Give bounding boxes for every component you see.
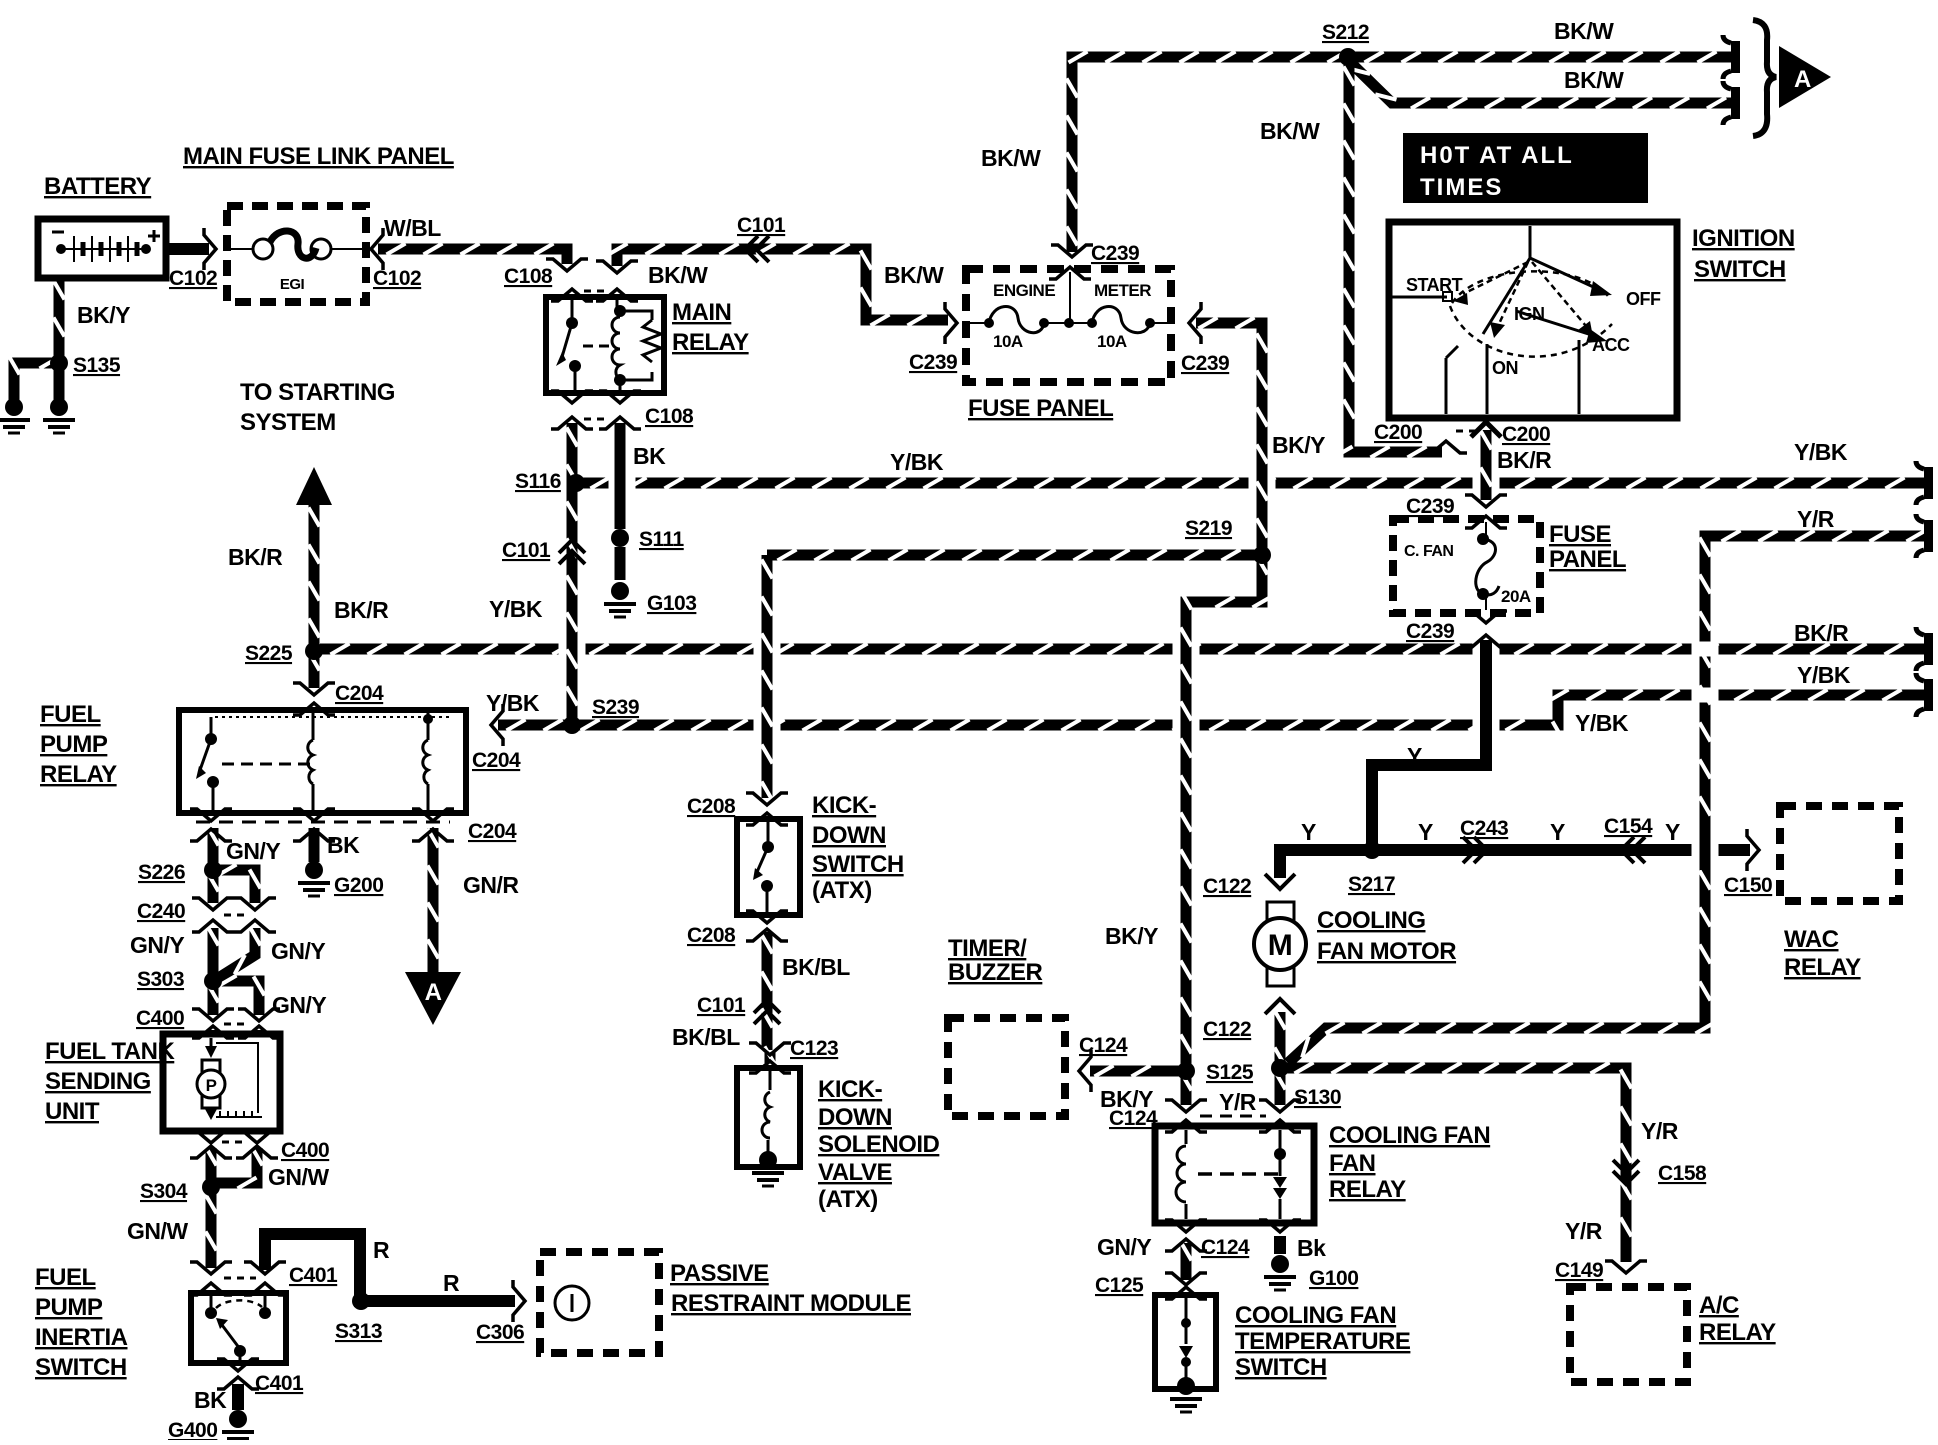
- svg-text:SYSTEM: SYSTEM: [240, 409, 336, 436]
- wire end Y/BK row A: [1916, 461, 1933, 505]
- svg-text:Y/R: Y/R: [1565, 1218, 1603, 1244]
- wire pin stub C400 left: [208, 1030, 219, 1034]
- svg-text:S303: S303: [137, 968, 184, 991]
- label RELAY at 1699,1340: [1699, 1319, 1776, 1346]
- svg-text:S226: S226: [138, 861, 185, 884]
- label C239 at 1181,370: [1181, 352, 1229, 375]
- connector C108 bottom right: [599, 391, 641, 429]
- svg-text:SWITCH: SWITCH: [1694, 256, 1786, 283]
- label PANEL at 1549,567: [1549, 546, 1626, 573]
- wire GN/Y wire relay to C125: [1181, 1242, 1192, 1281]
- svg-text:Y/BK: Y/BK: [890, 449, 944, 475]
- svg-text:WAC: WAC: [1784, 926, 1839, 953]
- svg-text:BK/W: BK/W: [1564, 67, 1624, 93]
- svg-text:IGNITION: IGNITION: [1692, 225, 1795, 252]
- label KICK- at 812,813: [812, 792, 877, 819]
- svg-text:C208: C208: [687, 795, 736, 818]
- connector C401 bottom: [217, 1359, 259, 1389]
- wire BK/Y wire S135 to grounds: [9, 356, 60, 401]
- svg-text:G400: G400: [168, 1419, 217, 1440]
- connector C239 cfan top: [1465, 495, 1507, 528]
- svg-text:Y: Y: [1418, 819, 1433, 845]
- svg-text:GN/Y: GN/Y: [271, 938, 325, 964]
- node S116: [567, 474, 585, 492]
- svg-text:C200: C200: [1374, 421, 1422, 444]
- label G100 at 1309,1285: [1309, 1267, 1358, 1290]
- connector C122 motor top arrow: [1265, 874, 1295, 889]
- svg-text:A/C: A/C: [1699, 1292, 1739, 1319]
- svg-text:FUSE PANEL: FUSE PANEL: [968, 395, 1113, 422]
- label C204 at 472,767: [472, 749, 521, 772]
- label S225 at 245,660: [245, 642, 293, 665]
- wire Y wire fuse to S217: [1372, 640, 1486, 850]
- label C102 at 169,285: [169, 267, 217, 290]
- wire GN/Y branch S226 right: [217, 865, 261, 904]
- node S303: [204, 972, 222, 990]
- label SYSTEM at 240,430: [240, 409, 336, 436]
- label Y/R at 1219,1110: [1219, 1089, 1257, 1115]
- wire GN/R wire C204 to connector A arrow: [428, 828, 439, 975]
- label UNIT at 45,1119: [45, 1098, 100, 1125]
- label FUEL at 40,722: [40, 701, 101, 728]
- wire Y/R wire S130 to C158/C149: [1286, 1063, 1632, 1263]
- node S135: [50, 354, 68, 372]
- connector C204 dashed line: [196, 821, 450, 824]
- svg-text:BK/W: BK/W: [1260, 118, 1320, 144]
- label C200 at 1502,441: [1502, 423, 1550, 446]
- label C400 at 136,1025: [136, 1007, 184, 1030]
- label C102 at 373,285: [373, 267, 421, 290]
- label Y/R at 1641,1139: [1641, 1118, 1679, 1144]
- svg-text:H0T AT ALL: H0T AT ALL: [1420, 142, 1574, 169]
- label G200 at 334,892: [334, 874, 383, 897]
- svg-text:FAN: FAN: [1329, 1150, 1376, 1177]
- label Bk at 1297,1256: [1297, 1235, 1326, 1261]
- svg-text:FUEL TANK: FUEL TANK: [45, 1038, 175, 1065]
- label FUEL TANK at 45,1059: [45, 1038, 175, 1065]
- wire BK/BL stub C123: [765, 1047, 776, 1066]
- connector C154 inline: [1621, 837, 1645, 863]
- label fuse C. FAN: [1404, 543, 1453, 560]
- label Y at 1665,840: [1665, 819, 1680, 845]
- connector C150: [1747, 829, 1759, 871]
- svg-text:S304: S304: [140, 1180, 188, 1203]
- label BK at 194,1408: [194, 1387, 227, 1413]
- wire end BK/W 1: [1723, 35, 1740, 79]
- label BK at 633,464: [633, 443, 666, 469]
- svg-text:RELAY: RELAY: [672, 329, 749, 356]
- relay fuel pump relay: [179, 710, 466, 813]
- svg-text:METER: METER: [1094, 281, 1151, 300]
- svg-text:Y/BK: Y/BK: [489, 596, 543, 622]
- svg-text:RELAY: RELAY: [40, 761, 117, 788]
- svg-text:C108: C108: [645, 405, 694, 428]
- svg-text:G200: G200: [334, 874, 383, 897]
- label GN/Y at 1097,1255: [1097, 1234, 1151, 1260]
- svg-text:C101: C101: [697, 994, 746, 1017]
- connector C108 bottom left: [551, 391, 593, 429]
- ground left of S135: [0, 398, 30, 433]
- svg-text:Y/R: Y/R: [1219, 1089, 1257, 1115]
- label FUEL at 35,1285: [35, 1264, 96, 1291]
- svg-text:BK/Y: BK/Y: [1272, 432, 1325, 458]
- label C200 at 1374,439: [1374, 421, 1422, 444]
- svg-text:S212: S212: [1322, 21, 1369, 44]
- connector C102 battery side: [204, 228, 216, 270]
- svg-text:S116: S116: [515, 470, 561, 493]
- svg-text:Bk: Bk: [1297, 1235, 1326, 1261]
- fuel tank sending unit: [163, 1034, 280, 1131]
- svg-text:GN/R: GN/R: [463, 872, 519, 898]
- wire Y/BK row S219 left segment: [767, 550, 1258, 561]
- svg-text:C306: C306: [476, 1321, 524, 1344]
- wire BK/W vertical to top row: [1067, 52, 1738, 253]
- svg-text:A: A: [1794, 66, 1811, 93]
- svg-text:C239: C239: [1406, 620, 1454, 643]
- svg-text:BK/W: BK/W: [648, 262, 708, 288]
- wire BK/R wire arrow to S225: [309, 503, 320, 649]
- switch cooling fan temperature switch: [1155, 1295, 1216, 1389]
- svg-text:C243: C243: [1460, 817, 1508, 840]
- wire GN/Y wire S226 to C240: [208, 873, 219, 904]
- label BATTERY at 44,194: [44, 173, 152, 200]
- ground G200: [298, 861, 330, 896]
- svg-text:PUMP: PUMP: [40, 731, 108, 758]
- svg-text:G103: G103: [647, 592, 696, 615]
- label TIMER/ at 948,956: [948, 935, 1027, 962]
- connector C400 bottom: [190, 1131, 278, 1158]
- svg-text:C239: C239: [1181, 352, 1229, 375]
- label C122 at 1203,893: [1203, 875, 1251, 898]
- connector C108 top left: [546, 259, 593, 301]
- label HOT AT ALL TIMES: [1403, 133, 1648, 203]
- svg-text:IGN: IGN: [1514, 304, 1545, 324]
- label C150 at 1724,892: [1724, 874, 1772, 897]
- connector C102 EGI side: [371, 228, 383, 270]
- connector C204 right: [491, 704, 503, 746]
- label BK/W at 1260,139: [1260, 118, 1320, 144]
- label RESTRAINT MODULE at 671,1311: [671, 1290, 911, 1317]
- svg-text:ACC: ACC: [1592, 335, 1630, 355]
- svg-text:PASSIVE: PASSIVE: [670, 1260, 769, 1287]
- svg-text:START: START: [1406, 275, 1463, 295]
- wire battery positive lead: [166, 243, 209, 255]
- label TEMPERATURE at 1235,1349: [1235, 1328, 1411, 1355]
- wire GN/Y branch C240 to S303: [220, 927, 261, 978]
- node S212: [1339, 48, 1357, 66]
- wire Y/BK row S239 with jog to right edge: [498, 690, 1930, 741]
- svg-text:P: P: [206, 1076, 217, 1095]
- connector C239 fuse right: [1189, 302, 1201, 344]
- connector C108 top right: [596, 261, 638, 301]
- wire BK stub S111 to G103: [615, 547, 626, 580]
- svg-text:S130: S130: [1294, 1086, 1341, 1109]
- node S111: [611, 529, 629, 547]
- svg-text:BK/R: BK/R: [228, 544, 283, 570]
- label C108 at 504,283: [504, 265, 553, 288]
- label C239 at 1406,638: [1406, 620, 1454, 643]
- label BK/Y at 1272,453: [1272, 432, 1325, 458]
- node S130: [1271, 1059, 1289, 1077]
- label C401 at 289,1282: [289, 1264, 338, 1287]
- svg-text:C154: C154: [1604, 815, 1653, 838]
- ground G103: [604, 582, 636, 617]
- svg-text:BUZZER: BUZZER: [948, 959, 1042, 986]
- svg-text:BK/BL: BK/BL: [782, 954, 850, 980]
- label C239 at 909,369: [909, 351, 957, 374]
- label GN/R at 463,893: [463, 872, 519, 898]
- motor cooling fan motor: [1254, 902, 1306, 986]
- switch kick-down switch ATX: [737, 819, 800, 915]
- svg-text:GN/W: GN/W: [127, 1218, 188, 1244]
- svg-text:(ATX): (ATX): [818, 1186, 878, 1213]
- svg-text:W/BL: W/BL: [384, 215, 441, 241]
- connector C208 top: [746, 793, 788, 825]
- switch fuel pump inertia switch: [191, 1293, 286, 1363]
- label BK/W at 1564,88: [1564, 67, 1624, 93]
- svg-text:Y/BK: Y/BK: [1797, 662, 1851, 688]
- svg-text:BK/Y: BK/Y: [1100, 1086, 1153, 1112]
- arrow connector A down: [405, 972, 461, 1025]
- label C208 at 687,813: [687, 795, 736, 818]
- main fuse link EGI: [227, 206, 366, 302]
- label BK/W at 981,166: [981, 145, 1041, 171]
- label Y at 1407,764: [1407, 743, 1422, 769]
- connector C239 fuse left: [945, 302, 957, 344]
- label S125 at 1206,1079: [1206, 1061, 1254, 1084]
- label COOLING FAN at 1235,1323: [1235, 1302, 1396, 1329]
- svg-text:FUSE: FUSE: [1549, 521, 1612, 548]
- svg-text:RELAY: RELAY: [1699, 1319, 1776, 1346]
- label S217 at 1348,891: [1348, 873, 1395, 896]
- svg-text:C204: C204: [468, 820, 517, 843]
- label Y/BK at 1797,683: [1797, 662, 1851, 688]
- label GN/Y at 271,959: [271, 938, 325, 964]
- node S226: [204, 861, 222, 879]
- svg-text:BK/Y: BK/Y: [1105, 923, 1158, 949]
- svg-text:UNIT: UNIT: [45, 1098, 100, 1125]
- svg-text:RELAY: RELAY: [1784, 954, 1861, 981]
- svg-text:COOLING FAN: COOLING FAN: [1329, 1122, 1490, 1149]
- wire BK/R row from S225 to right edge: [320, 644, 1930, 655]
- svg-text:BK/R: BK/R: [1497, 447, 1552, 473]
- svg-text:C122: C122: [1203, 875, 1251, 898]
- svg-text:S111: S111: [639, 528, 685, 551]
- svg-text:GN/W: GN/W: [268, 1164, 329, 1190]
- label Y/BK at 1575,731: [1575, 710, 1629, 736]
- svg-text:GN/Y: GN/Y: [1097, 1234, 1151, 1260]
- solenoid kick-down solenoid valve ATX: [737, 1068, 800, 1167]
- svg-text:C400: C400: [281, 1139, 329, 1162]
- wire BK/W second top row: [1348, 60, 1737, 109]
- label RELAY at 1329,1197: [1329, 1176, 1406, 1203]
- label C154 at 1604,833: [1604, 815, 1653, 838]
- ground S135: [43, 398, 75, 433]
- svg-text:EGI: EGI: [280, 276, 305, 293]
- svg-text:C101: C101: [737, 214, 786, 237]
- svg-text:INERTIA: INERTIA: [35, 1324, 128, 1351]
- label GN/W at 268,1185: [268, 1164, 329, 1190]
- svg-text:C401: C401: [255, 1372, 304, 1395]
- label C208 at 687,942: [687, 924, 736, 947]
- svg-text:C400: C400: [136, 1007, 184, 1030]
- label VALVE at 818,1180: [818, 1159, 892, 1186]
- svg-text:PUMP: PUMP: [35, 1294, 103, 1321]
- svg-text:C101: C101: [502, 539, 551, 562]
- connector C401 top: [190, 1262, 286, 1295]
- label BK/Y at 1105,944: [1105, 923, 1158, 949]
- svg-text:20A: 20A: [1501, 587, 1531, 606]
- svg-text:SWITCH: SWITCH: [35, 1354, 127, 1381]
- label RELAY at 1784,975: [1784, 954, 1861, 981]
- label C123 at 790,1055: [790, 1037, 838, 1060]
- wire BK/R stub S225 to C204: [309, 652, 320, 689]
- wire Y wire motor row: [1274, 844, 1750, 856]
- label FUSE PANEL at 968,416: [968, 395, 1113, 422]
- label BK/W at 1554,39: [1554, 18, 1614, 44]
- ground temp switch: [1170, 1377, 1202, 1412]
- svg-text:C204: C204: [472, 749, 521, 772]
- label BK/W at 648,283: [648, 262, 708, 288]
- svg-text:DOWN: DOWN: [818, 1104, 892, 1131]
- svg-text:SOLENOID: SOLENOID: [818, 1131, 940, 1158]
- svg-text:S217: S217: [1348, 873, 1395, 896]
- svg-text:C102: C102: [169, 267, 217, 290]
- wire GN/W wire S304 to C401: [206, 1194, 217, 1268]
- label C101 at 737,232: [737, 214, 786, 237]
- label BK/Y at 1100,1107: [1100, 1086, 1153, 1112]
- svg-text:FUEL: FUEL: [40, 701, 101, 728]
- svg-text:C150: C150: [1724, 874, 1772, 897]
- label FAN MOTOR at 1317,959: [1317, 938, 1456, 965]
- label BK/R at 1497,468: [1497, 447, 1552, 473]
- relay A/C relay: [1570, 1287, 1687, 1382]
- label C124 at 1201,1254: [1201, 1236, 1250, 1259]
- label PUMP at 40,752: [40, 731, 108, 758]
- label C124 at 1079,1052: [1079, 1034, 1128, 1057]
- label PUMP at 35,1315: [35, 1294, 103, 1321]
- svg-text:SENDING: SENDING: [45, 1068, 151, 1095]
- label DOWN at 812,843: [812, 822, 886, 849]
- connector C239 cfan bottom: [1465, 611, 1507, 647]
- svg-text:BK/BL: BK/BL: [672, 1024, 740, 1050]
- relay cooling fan relay: [1155, 1126, 1314, 1223]
- label RELAY at 672,350: [672, 329, 749, 356]
- arrow to starting system: [296, 467, 332, 505]
- svg-text:Y/R: Y/R: [1641, 1118, 1679, 1144]
- svg-text:FUEL: FUEL: [35, 1264, 96, 1291]
- label C400 at 281,1157: [281, 1139, 329, 1162]
- module timer/buzzer: [948, 1018, 1065, 1116]
- value 10A engine fuse: [993, 332, 1023, 351]
- label PASSIVE at 670,1281: [670, 1260, 769, 1287]
- svg-text:C239: C239: [1091, 242, 1139, 265]
- connector C123: [749, 1043, 791, 1073]
- wire end Y/R: [1916, 514, 1933, 558]
- svg-text:C124: C124: [1201, 1236, 1250, 1259]
- ground G100: [1264, 1255, 1296, 1290]
- svg-text:TEMPERATURE: TEMPERATURE: [1235, 1328, 1411, 1355]
- wire BK/W wire S212 to C200: [1334, 62, 1443, 458]
- label Y at 1550,840: [1550, 819, 1565, 845]
- label TO STARTING at 240,400: [240, 379, 395, 406]
- label C108 at 645,423: [645, 405, 694, 428]
- wire GN/Y wire C240 to S303: [208, 927, 219, 976]
- svg-text:VALVE: VALVE: [818, 1159, 892, 1186]
- wire Y/BK row from S116 to right edge: [580, 478, 1930, 489]
- label COOLING FAN at 1329,1143: [1329, 1122, 1490, 1149]
- wire BK/BL wire C208 to C101: [762, 932, 773, 1050]
- svg-text:S239: S239: [592, 696, 639, 719]
- label (ATX) at 812,898: [812, 877, 872, 904]
- label COOLING at 1317,928: [1317, 907, 1426, 934]
- svg-text:C239: C239: [909, 351, 957, 374]
- connector C101 inline BK/BL: [754, 1000, 780, 1024]
- svg-text:C401: C401: [289, 1264, 338, 1287]
- wire Y/R wire motor to S130: [1275, 1011, 1286, 1069]
- connector C124 relay bottom: [1165, 1220, 1207, 1251]
- wire end Y/BK row E: [1916, 673, 1933, 717]
- label IGNITION at 1692,246: [1692, 225, 1795, 252]
- label BK at 327,853: [327, 832, 360, 858]
- svg-text:BK/W: BK/W: [1554, 18, 1614, 44]
- wire Y/BK vertical C108 to S239: [567, 423, 578, 725]
- svg-text:C102: C102: [373, 267, 421, 290]
- svg-text:BK/R: BK/R: [1794, 620, 1849, 646]
- label SWITCH at 35,1375: [35, 1354, 127, 1381]
- connector C200 right arrow: [1471, 422, 1501, 437]
- svg-text:S219: S219: [1185, 517, 1232, 540]
- wire GN/Y wire S303 to C400: [208, 984, 219, 1016]
- label Y/BK at 489,617: [489, 596, 543, 622]
- svg-text:R: R: [443, 1270, 460, 1296]
- switch ignition switch: [1389, 222, 1677, 418]
- fuse panel C. FAN 20A: [1393, 519, 1540, 613]
- svg-text:10A: 10A: [993, 332, 1023, 351]
- label S130 at 1294,1104: [1294, 1086, 1341, 1109]
- svg-text:TIMES: TIMES: [1420, 174, 1503, 201]
- svg-text:BK: BK: [633, 443, 666, 469]
- label A/C at 1699,1313: [1699, 1292, 1739, 1319]
- label INERTIA at 35,1345: [35, 1324, 128, 1351]
- ground G400: [222, 1410, 254, 1445]
- label S303 at 137,986: [137, 968, 184, 991]
- label MAIN at 672,320: [672, 299, 731, 326]
- label W/BL at 384,236: [384, 215, 441, 241]
- label BK/Y at 77,323: [77, 302, 130, 328]
- label C239 at 1091,260: [1091, 242, 1139, 265]
- wire GN/Y wire C204 to S226: [208, 827, 219, 865]
- wire end BK/R: [1916, 627, 1933, 671]
- label FUSE at 1549,542: [1549, 521, 1612, 548]
- label Y at 1301,840: [1301, 819, 1316, 845]
- connector BK stub relay bottom: [1259, 1220, 1301, 1254]
- svg-text:KICK-: KICK-: [812, 792, 877, 819]
- connector C240: [192, 898, 276, 932]
- label Y/R at 1565,1239: [1565, 1218, 1603, 1244]
- svg-text:GN/Y: GN/Y: [226, 838, 280, 864]
- label R at 443,1291: [443, 1270, 460, 1296]
- fuse panel ENGINE/METER: [966, 269, 1171, 382]
- label Y/BK at 486,711: [486, 690, 540, 716]
- wire Y/BK vertical S219 to kick-down switch: [762, 555, 773, 801]
- label GN/Y at 272,1013: [272, 992, 326, 1018]
- svg-text:C240: C240: [137, 900, 185, 923]
- svg-text:C124: C124: [1079, 1034, 1128, 1057]
- node S239: [563, 716, 581, 734]
- relay WAC relay: [1780, 806, 1899, 901]
- svg-text:Y: Y: [1407, 743, 1422, 769]
